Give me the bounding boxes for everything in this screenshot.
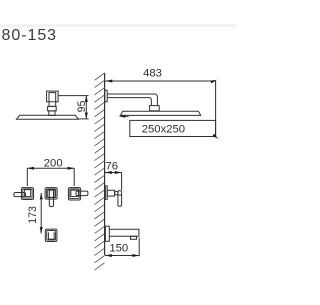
dimension 200 extension left [26, 168, 28, 186]
dimension 483 left arrow [105, 80, 112, 83]
shower arm horizontal [107, 94, 157, 106]
dimension 150 left arrow [105, 254, 112, 257]
svg-text:483: 483 [143, 67, 162, 79]
dimension 76 right arrow [115, 171, 122, 174]
dimension 76 extension [121, 173, 123, 191]
middle valve escutcheon [45, 188, 57, 200]
wall hatching [95, 73, 105, 270]
spout escutcheon [105, 226, 109, 241]
label box 250x250 leader arrow left [119, 115, 126, 118]
wall valve lever [118, 191, 122, 207]
label box 250x250 [130, 120, 216, 136]
dimension 76 left arrow [105, 171, 112, 174]
dimension 200 left arrow [27, 167, 34, 170]
shower arm wall flange [105, 90, 107, 102]
dimension 200 right arrow [68, 167, 75, 170]
middle valve lever [49, 190, 53, 207]
svg-text:95: 95 [76, 101, 88, 113]
wall valve body [107, 190, 114, 196]
svg-text:250x250: 250x250 [142, 123, 185, 135]
dimension 173 bottom arrow [40, 227, 43, 234]
dimension 95 extension top [58, 95, 89, 97]
right handle lever [76, 191, 88, 196]
dimension 95 bottom arrow [85, 113, 88, 120]
left view: arm elbow square [47, 91, 59, 102]
right handle escutcheon [68, 188, 80, 200]
wall line [104, 73, 106, 255]
left view: nut [48, 106, 57, 111]
svg-text:76: 76 [106, 161, 119, 173]
dimension 200 line [27, 167, 74, 169]
shower head front view [120, 111, 200, 115]
dimension 95 extension bottom [78, 118, 88, 120]
dimension 173 top arrow [40, 193, 43, 200]
wall valve stem [115, 192, 118, 195]
left view: head plate [17, 115, 79, 119]
label box 250x250 leader arrow right [212, 134, 218, 139]
spout front view square [45, 229, 57, 241]
dimension 150 extension [138, 238, 140, 257]
product code 80-153 [2, 27, 58, 45]
svg-text:150: 150 [109, 243, 128, 255]
left handle lever [14, 193, 26, 197]
dimension 150 right arrow [132, 254, 139, 257]
dimension 173 line [40, 193, 42, 233]
dimension 200 extension right [73, 168, 75, 186]
svg-text:173: 173 [27, 206, 39, 224]
dimension 483 right arrow [210, 80, 217, 84]
spout aerator [131, 236, 137, 239]
shower arm nut [150, 106, 160, 111]
spout body [109, 229, 139, 236]
dimension 95 line [85, 96, 87, 119]
left view: tube [49, 93, 56, 107]
left handle escutcheon [21, 188, 33, 200]
dimension 95 top arrow [85, 95, 88, 102]
svg-text:200: 200 [44, 157, 63, 169]
wall valve escutcheon [105, 186, 107, 199]
header band [0, 24, 236, 27]
dimension 483 line [105, 80, 216, 82]
dimension 483 right leg [215, 81, 217, 137]
dimension 150 line [105, 255, 139, 257]
dimension 76 line [105, 172, 122, 174]
